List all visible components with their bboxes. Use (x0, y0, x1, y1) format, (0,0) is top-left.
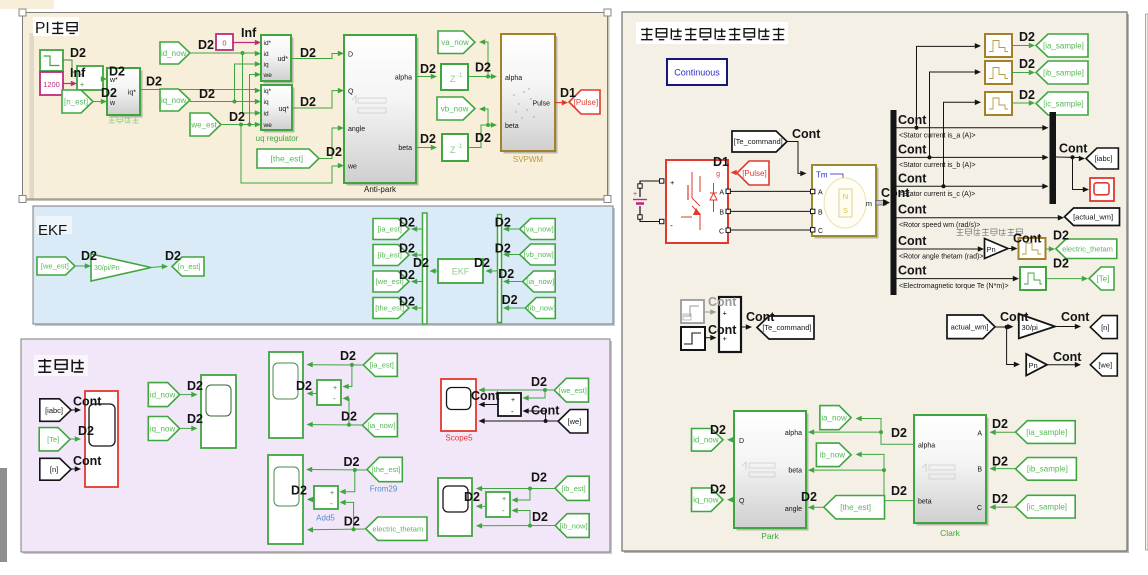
svg-text:[iabc]: [iabc] (1095, 154, 1113, 163)
svg-text:-1: -1 (457, 144, 463, 150)
from tag we_est (ekf) (37, 257, 75, 275)
from tag the_est (257, 149, 319, 168)
wire clark beta to park beta with branch ib_now (811, 470, 914, 501)
motor PMSM block (815, 168, 879, 239)
svg-text:D2: D2 (474, 256, 490, 270)
selection handle (19, 196, 26, 203)
block Continuous (powergui) (667, 59, 727, 85)
wire gray source to sum (704, 311, 712, 313)
svg-text:D2: D2 (710, 423, 726, 437)
from tag we_est (190, 113, 221, 136)
wire sum out to scope (ia) (309, 393, 317, 395)
svg-text:[ia_sample]: [ia_sample] (1043, 41, 1084, 50)
goto tag [ib_est] (ekf left) (373, 245, 409, 266)
svg-text:ud*: ud* (277, 56, 288, 63)
wire tag to mux (506, 281, 523, 283)
wire rate transition to electric_thetam (1046, 248, 1050, 250)
svg-text:<Stator current is_b (A)>: <Stator current is_b (A)> (899, 162, 976, 169)
svg-text:Cont: Cont (73, 395, 102, 409)
svg-text:iq: iq (264, 99, 269, 106)
from tag we_est (obs, green) (554, 378, 588, 402)
svg-text:Cont: Cont (708, 323, 737, 337)
from tag ia_now (obs) (362, 414, 397, 437)
wire sum to Te_command goto (741, 326, 747, 328)
block EKF (438, 259, 483, 283)
goto tag ia_now (park) (820, 406, 851, 430)
svg-text:D: D (348, 52, 353, 59)
svg-text:[va_now]: [va_now] (524, 225, 554, 234)
svg-text:alpha: alpha (918, 443, 935, 450)
wire tag to mux (506, 307, 525, 309)
from tag the_est (park) (824, 496, 885, 519)
svg-text:[ib_sample]: [ib_sample] (1043, 68, 1084, 77)
wire iabc to scope (71, 409, 77, 411)
svg-text:D2: D2 (187, 379, 203, 393)
svg-text:[ib_now]: [ib_now] (560, 521, 588, 530)
svg-text:[ia_now]: [ia_now] (367, 421, 395, 430)
svg-text:[ia_est]: [ia_est] (370, 361, 394, 370)
wire Pn to we tag (1047, 364, 1076, 366)
svg-text:EKF: EKF (452, 267, 470, 277)
svg-text:+: + (330, 490, 334, 497)
svg-text:D2: D2 (344, 455, 360, 469)
goto tag Te_command (bottom) (757, 316, 814, 339)
svg-text:Cont: Cont (898, 234, 927, 248)
svg-text:[n]: [n] (1101, 323, 1109, 332)
svg-text:[we]: [we] (1098, 360, 1112, 369)
svg-text:+: + (670, 178, 675, 187)
svg-text:beta: beta (505, 123, 519, 130)
svg-text:[Pulse]: [Pulse] (574, 98, 598, 107)
svg-text:Inf: Inf (70, 66, 86, 80)
sum block (ib) (486, 492, 510, 517)
svg-text:D2: D2 (291, 484, 307, 498)
svg-text:we: we (263, 122, 273, 129)
svg-text:EKF: EKF (38, 222, 67, 239)
wire 30/pi to n tag (1055, 326, 1076, 328)
svg-text:Cont: Cont (1059, 142, 1088, 156)
svg-text:alpha: alpha (785, 430, 802, 437)
wire the_est to anti-park angle (319, 128, 340, 159)
svg-text:id_now: id_now (161, 49, 187, 58)
rate transition brown (thetam) (1019, 238, 1046, 259)
svg-text:Pn: Pn (1029, 361, 1038, 370)
svg-text:D2: D2 (229, 110, 245, 124)
svg-text:[ia_now]: [ia_now] (526, 277, 554, 286)
svg-text:D2: D2 (495, 216, 511, 230)
from tag iq_now (160, 89, 190, 111)
wire sample tag to clark port (992, 506, 1016, 508)
goto tag [ib_sample] (1036, 61, 1088, 84)
from tag [vb_now] (ekf right) (520, 244, 556, 265)
wire ud* to anti-park D (291, 54, 340, 59)
svg-text:id_now: id_now (150, 390, 176, 399)
mux bar iabc (black) (1050, 112, 1057, 204)
svg-text:D2: D2 (891, 426, 907, 440)
wire sum out to scope5 (480, 404, 498, 406)
svg-text:D2: D2 (300, 46, 316, 60)
from tag ia_est (obs) (363, 353, 397, 376)
from tag we (obs, black) (558, 410, 588, 434)
bus wire motor m to bus bar (876, 201, 886, 206)
svg-text:SVPWM: SVPWM (513, 155, 544, 164)
port squares converter right (726, 189, 730, 193)
svg-text:D2: D2 (992, 455, 1008, 469)
svg-text:PI: PI (35, 20, 50, 37)
svg-text:Q: Q (348, 89, 354, 96)
from tag [ic_sample] (clark) (1016, 495, 1076, 518)
svg-text:D2: D2 (532, 510, 548, 524)
svg-text:30/pi/Pn: 30/pi/Pn (94, 265, 120, 272)
panel area observation window (lavender) (23, 341, 612, 554)
svg-text:iq_now: iq_now (161, 96, 187, 105)
wire 1200 to sum (magenta) (63, 83, 73, 85)
wires converter ABC to motor (730, 190, 811, 192)
svg-text:[ic_sample]: [ic_sample] (1043, 99, 1083, 108)
svg-text:Cont: Cont (898, 113, 927, 127)
svg-text:vb_now: vb_now (441, 104, 469, 113)
from tag iq_now (obs) (148, 417, 179, 441)
wires we_est to scope5 and sum (480, 389, 554, 391)
svg-text:D2: D2 (495, 242, 511, 256)
svg-text:iq_now: iq_now (693, 496, 719, 505)
goto tag [ia_sample] (1036, 34, 1088, 57)
svg-text:D: D (739, 438, 744, 445)
wire 0 to id* (magenta) (233, 42, 256, 44)
svg-text:id*: id* (264, 40, 272, 47)
wire pulse tag to g (red) (734, 172, 737, 174)
svg-text:D2: D2 (340, 349, 356, 363)
wire bus row wm to actual_wm tag (897, 217, 1060, 219)
wire n to scope (71, 468, 77, 470)
svg-text:[Te]: [Te] (47, 435, 59, 444)
step source block (black) (681, 327, 705, 350)
gain Pn (row5) (985, 239, 1009, 259)
svg-text:A: A (818, 190, 823, 197)
from tag the_est (obs) (367, 457, 402, 481)
svg-text:Cont: Cont (73, 454, 102, 468)
svg-text:0: 0 (222, 39, 226, 48)
wire uq* to anti-park Q (292, 91, 340, 108)
rate transition sample block for [ic_sample] (985, 92, 1012, 115)
IGBT icon inside converter (691, 172, 693, 198)
svg-text:[iabc]: [iabc] (45, 406, 63, 415)
wire anti-park alpha to unit delay (416, 76, 433, 78)
scope block green 2 inputs (201, 375, 236, 448)
goto tag electric_thetam (1056, 239, 1117, 259)
from tag [va_now] (ekf right) (520, 219, 556, 240)
svg-text:+: + (633, 191, 637, 198)
svg-text:m: m (866, 199, 872, 208)
svg-text:Clark: Clark (940, 528, 961, 538)
demux bar left (ekf) (423, 213, 428, 324)
goto tag n_est (ekf) (172, 257, 204, 276)
svg-text:<Electromagnetic torque Te (N*: <Electromagnetic torque Te (N*m)> (899, 283, 1009, 290)
svg-text:Cont: Cont (1061, 310, 1090, 324)
scope block Scope5 (red) (441, 379, 476, 431)
wires ib_est to scope and sum (477, 488, 555, 490)
svg-text:C: C (818, 228, 823, 235)
wire clark alpha to park alpha with branch ia_now (811, 432, 914, 444)
scope block green tall (theta compare) (268, 455, 303, 544)
selection handle (19, 9, 26, 16)
wire Te to scope (70, 438, 77, 440)
from tag id_now (obs) (148, 383, 179, 407)
wire sample to goto [ia_sample] (1012, 45, 1030, 47)
gray strip inside PI panel left (30, 33, 35, 199)
unit delay Z-1 alpha (441, 64, 468, 90)
converter block (red, IGBT bridge) (666, 160, 728, 243)
svg-text:D2: D2 (399, 268, 415, 282)
svg-text:+: + (502, 496, 506, 503)
svg-text:-: - (330, 499, 333, 508)
wires we to scope5 and sum (480, 420, 558, 422)
svg-text:D2: D2 (101, 86, 117, 100)
svg-text:Cont: Cont (898, 142, 927, 156)
wire iq_now to iq ports (190, 101, 257, 103)
subsystem Park (737, 414, 809, 531)
wires ia_est branch to scope and sum (309, 364, 363, 366)
wire bus row is_a to mux2 with branch up to sample1 (897, 127, 1044, 129)
subsystem Anti-park (347, 38, 419, 186)
svg-text:+: + (333, 385, 337, 392)
svg-text:D2: D2 (992, 417, 1008, 431)
svg-text:alpha: alpha (505, 75, 522, 82)
svg-text:Cont: Cont (898, 203, 927, 217)
wire n_est to w port (93, 101, 103, 103)
unit delay Z-1 beta (442, 134, 468, 161)
from tag Te (green) (39, 428, 70, 451)
svg-text:Z: Z (450, 145, 456, 155)
wire step to sum (705, 337, 712, 339)
motor Tm line (blue) (830, 174, 843, 184)
svg-text:Cont: Cont (1000, 310, 1029, 324)
wire to Te tag (1046, 278, 1083, 280)
svg-text:Pulse: Pulse (532, 101, 550, 108)
motor ellipse and magnet (824, 178, 866, 228)
svg-text:uq*: uq* (278, 106, 289, 113)
svg-text:D2: D2 (464, 490, 480, 504)
svg-text:[actual_wm]: [actual_wm] (1073, 212, 1113, 221)
svg-text:D1: D1 (713, 155, 729, 169)
subsystem ud regulator (264, 38, 294, 84)
wires ia_now branch to scope and sum (309, 424, 362, 426)
svg-text:Anti-park: Anti-park (364, 185, 397, 194)
panel area PI control (beige) (25, 15, 610, 202)
svg-text:D2: D2 (475, 61, 491, 75)
svg-text:Z: Z (450, 74, 456, 84)
bus selector bar (black) (891, 110, 897, 295)
svg-text:[ic_sample]: [ic_sample] (1027, 503, 1067, 512)
svg-text:C: C (719, 229, 724, 236)
svg-text:[ib_now]: [ib_now] (528, 304, 556, 313)
wire ekf to demux (432, 270, 439, 272)
goto tag [we_est] (ekf left) (373, 271, 409, 292)
svg-text:iq_now: iq_now (150, 424, 176, 433)
svg-text:id: id (264, 111, 269, 118)
from tag id_now (160, 42, 190, 64)
from tag n (black) (40, 458, 71, 480)
svg-text:Cont: Cont (1013, 232, 1042, 246)
wire we_est to we ports and anti-park we (221, 124, 257, 126)
svpwm inner dots icon (513, 94, 514, 95)
wire bus row thetam to Pn gain (897, 248, 980, 250)
svg-text:D2: D2 (146, 75, 162, 89)
svg-text:D2: D2 (198, 38, 214, 52)
from tag Te_command (top) (732, 131, 787, 152)
goto tag iq_now (park) (692, 488, 724, 512)
scope block green tall (ia compare) (269, 352, 303, 438)
svg-text:D2: D2 (399, 242, 415, 256)
svg-text:D2: D2 (78, 424, 94, 438)
sum block (we compare, black) (498, 393, 521, 416)
svg-text:D2: D2 (413, 256, 429, 270)
svg-text:-: - (502, 506, 505, 515)
svg-text:[n]: [n] (50, 465, 58, 474)
wire bus row is_b to mux2 with branch up to sample2 (897, 156, 1044, 158)
svg-text:[Pulse]: [Pulse] (742, 169, 766, 178)
from tag iabc (black) (40, 399, 71, 422)
svg-text:actual_wm]: actual_wm] (951, 323, 989, 332)
from tag [ib_now] (ekf right) (525, 298, 555, 319)
svg-text:iq: iq (264, 62, 269, 69)
svg-text:[vb_now]: [vb_now] (524, 250, 554, 259)
goto tag Pulse (red) (569, 90, 600, 114)
from tag n_est (62, 90, 93, 113)
wire sample tag to clark port (992, 431, 1016, 433)
svg-text:electric_thetam: electric_thetam (372, 524, 423, 533)
svg-text:D2: D2 (341, 410, 357, 424)
rate transition sample block for [ib_sample] (985, 61, 1012, 84)
svg-text:va_now: va_now (441, 38, 469, 47)
wire id_now to id ports (190, 52, 257, 54)
svg-text:D2: D2 (81, 249, 97, 263)
svg-text:+: + (80, 82, 84, 89)
goto tag ib_now (park) (816, 443, 851, 467)
svg-text:iq*: iq* (264, 88, 272, 95)
goto tag [ia_est] (ekf left) (373, 219, 409, 240)
subsystem SVPWM (504, 37, 558, 154)
svg-text:electric_thetam: electric_thetam (1062, 244, 1113, 253)
step source block (40, 50, 63, 71)
svg-text:D2: D2 (420, 62, 436, 76)
wire actual_wm to 30/pi and Pn (995, 326, 1009, 328)
svg-text:Cont: Cont (471, 389, 500, 403)
wire Add5 out to scope (309, 498, 314, 500)
svg-text:[n_est]: [n_est] (178, 262, 201, 271)
svg-text:D2: D2 (300, 95, 316, 109)
svg-text:D2: D2 (710, 483, 726, 497)
svg-text:[the_est]: [the_est] (271, 154, 304, 164)
from tag Pulse (red) (737, 161, 769, 185)
goto tag va_now (438, 31, 475, 54)
wire id_now to scope2 (180, 394, 193, 396)
wire demux to tag (413, 228, 423, 230)
svg-text:D2: D2 (801, 490, 817, 504)
svg-text:[ia_sample]: [ia_sample] (1026, 428, 1067, 437)
wires electric_thetam branch to scope and sum (309, 528, 366, 531)
svg-text:[Te_command]: [Te_command] (762, 323, 811, 332)
svg-text:[n_est]: [n_est] (64, 97, 88, 106)
sum block speed error (77, 66, 103, 90)
svg-text:D2: D2 (399, 216, 415, 230)
wire delay to svpwm beta with branch to vb_now (468, 125, 492, 148)
panel area motor model and sampling (cream) (624, 14, 1129, 553)
svg-text:-: - (333, 394, 336, 403)
svg-text:we: we (263, 72, 273, 79)
clark inner icon (922, 464, 926, 472)
svg-text:beta: beta (398, 145, 412, 152)
subsystem speed regulator 转速调节 (110, 71, 143, 118)
svg-text:Pn: Pn (987, 245, 996, 254)
svg-text:Cont: Cont (898, 264, 927, 278)
svg-text:Cont: Cont (792, 127, 821, 141)
svg-text:Add5: Add5 (316, 514, 335, 523)
svg-text:D2: D2 (891, 484, 907, 498)
from tag ib_est (obs) (555, 476, 589, 500)
svg-text:Tm: Tm (816, 171, 828, 180)
goto tag actual_wm (black) (1065, 208, 1120, 226)
svg-text:uq regulator: uq regulator (256, 134, 299, 143)
wire step to sum (63, 60, 77, 72)
from tag [ia_now] (ekf right) (523, 271, 556, 292)
svg-text:D2: D2 (1019, 57, 1035, 71)
gain Pn (bottom) (1026, 354, 1047, 376)
wire delay to svpwm alpha with branch to va_now (468, 76, 492, 78)
svg-text:D2: D2 (1053, 229, 1069, 243)
wire bus row Te to rate transition green (897, 278, 1015, 280)
panel title 机电模型及采样模块 (636, 22, 788, 44)
svg-text:D2: D2 (326, 145, 342, 159)
rate transition sample block for [ia_sample] (985, 34, 1012, 57)
wire Pn to rate transition (1008, 248, 1013, 250)
svg-text:Continuous: Continuous (674, 68, 720, 78)
mux bar right (ekf) (498, 215, 502, 323)
svg-text:[ib_est]: [ib_est] (561, 484, 585, 493)
svg-text:From29: From29 (370, 485, 398, 494)
svg-text:beta: beta (788, 468, 802, 475)
anti-park inner icon (352, 96, 356, 104)
scope block green with black screen (ib compare) (438, 478, 472, 536)
svg-text:[we]: [we] (568, 417, 582, 426)
wire tag to mux (506, 254, 520, 256)
svg-text:we_est: we_est (190, 120, 217, 129)
svg-text:ia_now: ia_now (821, 414, 847, 423)
subsystem Clark (917, 418, 989, 526)
svg-text:angle: angle (785, 506, 802, 513)
svg-text:[we_est]: [we_est] (41, 262, 69, 271)
sum block (ia) (317, 380, 341, 405)
svg-text:D2: D2 (199, 87, 215, 101)
clipped annotation strip top-left (0, 0, 54, 9)
svg-text:D2: D2 (1019, 88, 1035, 102)
panel title 观察窗 (34, 355, 88, 376)
svg-text:+: + (511, 397, 515, 404)
sum block Te_command (black) (719, 297, 741, 352)
gain 30/pi/Pn (91, 254, 151, 281)
svg-text:D2: D2 (296, 379, 312, 393)
svg-text:D2: D2 (399, 295, 415, 309)
panel area EKF (blue) (35, 208, 615, 326)
svg-text:D2: D2 (344, 515, 360, 529)
goto tag vb_now (437, 97, 475, 120)
svg-text:[the_est]: [the_est] (840, 503, 871, 512)
svg-text:[the_est]: [the_est] (372, 465, 401, 474)
svg-text:<Rotor angle thetam (rad)>: <Rotor angle thetam (rad)> (899, 254, 983, 261)
svg-text:g: g (716, 171, 720, 178)
scope small (red) (1090, 178, 1114, 201)
selection handle (604, 9, 611, 16)
